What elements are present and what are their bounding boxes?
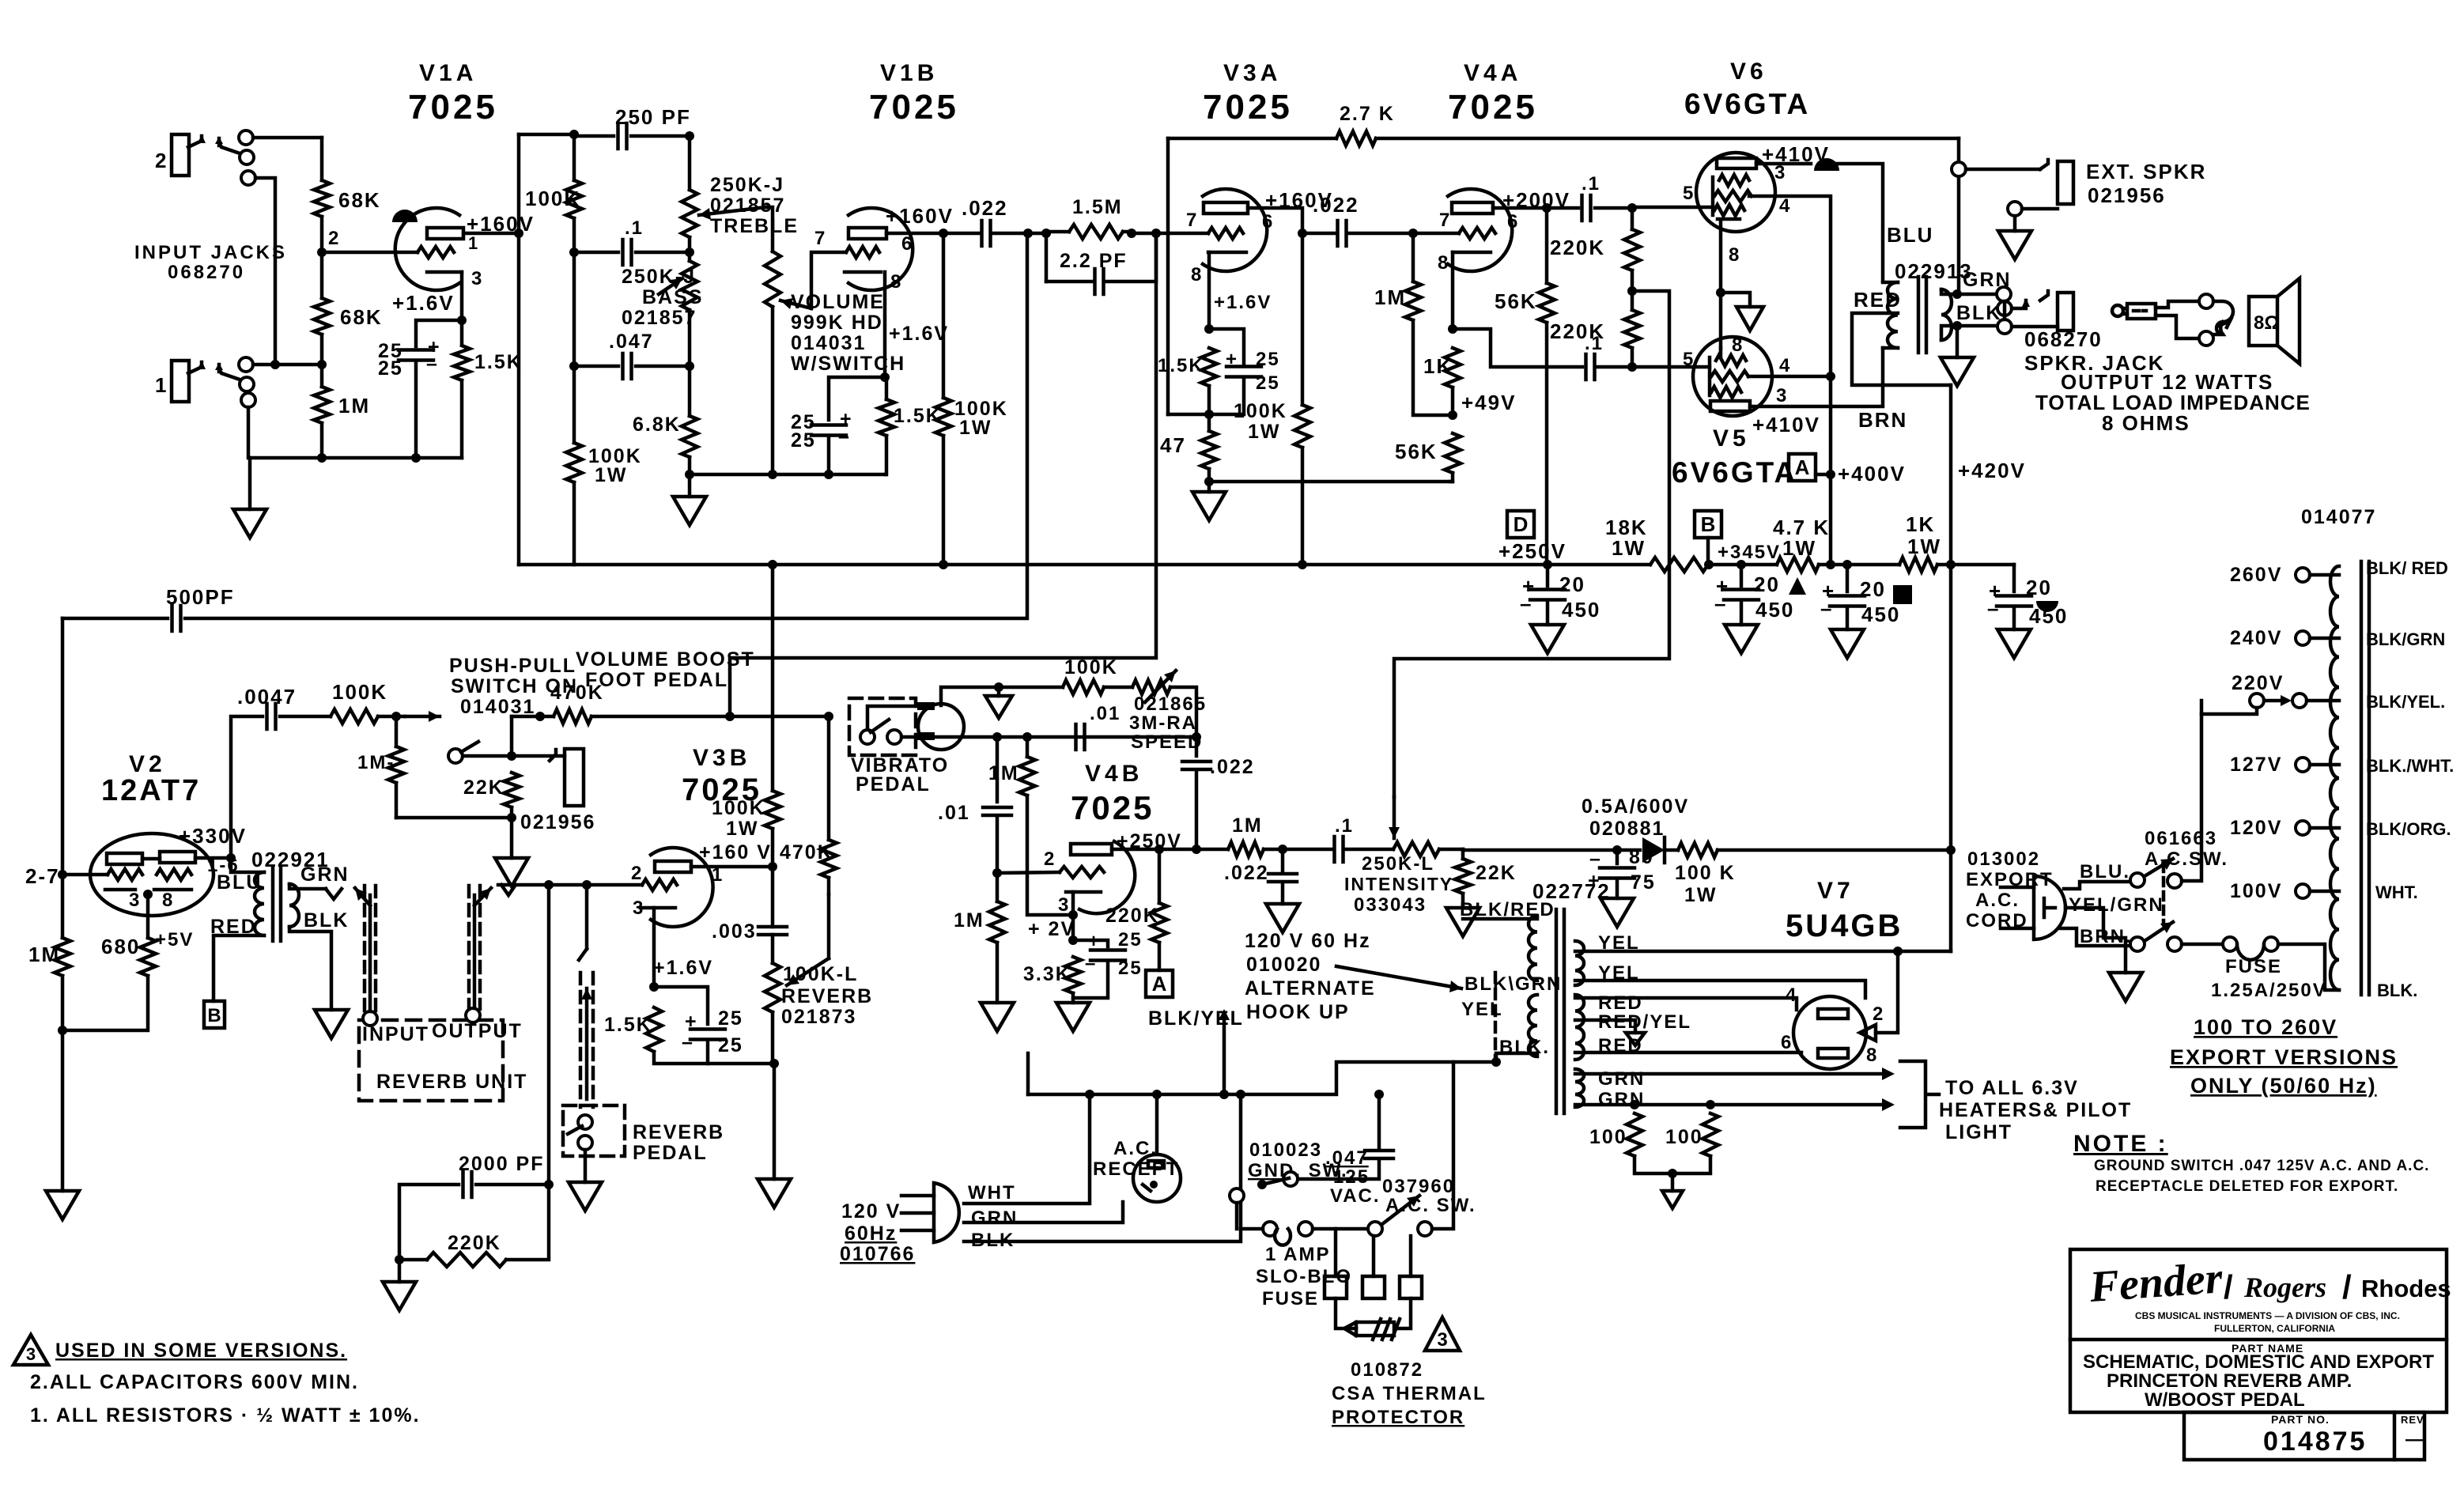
node volume gnd <box>768 470 777 479</box>
terminal 100V <box>2296 884 2310 898</box>
V6 cathode bar <box>1718 217 1740 221</box>
wire .01v bottom <box>996 816 1000 873</box>
terminal fusex right <box>2264 937 2278 951</box>
warning triangle note <box>13 1335 48 1365</box>
wire 22K vib bot <box>1461 894 1465 908</box>
wire 1M boost bot <box>395 783 399 818</box>
svg-text:–: – <box>1820 596 1833 620</box>
input jack 1 tip contact wire <box>217 365 221 372</box>
svg-text:68K: 68K <box>338 188 381 212</box>
xfmr prim bot lead <box>1883 346 1898 350</box>
V6 plate lead <box>1756 162 1811 166</box>
svg-text:220V: 220V <box>2232 672 2284 694</box>
plug prong blk <box>901 1229 934 1233</box>
svg-text:0.5A/600V: 0.5A/600V <box>1582 795 1689 818</box>
svg-text:V5: V5 <box>1713 425 1750 452</box>
svg-text:100 TO 260V: 100 TO 260V <box>2194 1015 2337 1039</box>
tube V1B envelope <box>848 208 913 290</box>
fuse drop <box>1239 1094 1243 1229</box>
warning triangle 3 <box>1425 1317 1460 1351</box>
tube V4A envelope <box>1448 189 1512 271</box>
tap 260 <box>2310 573 2339 577</box>
svg-text:+: + <box>1226 349 1238 370</box>
box node B red <box>204 1001 225 1028</box>
svg-text:/: / <box>2342 1268 2352 1306</box>
node V3A cath bottom <box>1204 410 1214 419</box>
bus 400 section <box>1819 563 1899 567</box>
node V3B plate <box>768 862 777 871</box>
capacitor .1 vib <box>1335 837 1343 862</box>
svg-text:OUTPUT: OUTPUT <box>432 1020 523 1042</box>
resistor 22K vib <box>1455 859 1471 894</box>
svg-text:061663: 061663 <box>2145 828 2217 849</box>
svg-text:1M: 1M <box>1374 285 1406 309</box>
resistor 1.5K V1B <box>879 399 894 436</box>
svg-text:68K: 68K <box>340 305 383 329</box>
wire 2.2pf left <box>1046 280 1094 284</box>
resistor 56K tail <box>1539 283 1555 323</box>
svg-text:100K: 100K <box>525 187 580 210</box>
heater bracket <box>1900 1061 1939 1128</box>
cable send arrow top <box>355 888 370 905</box>
svg-text:100: 100 <box>1665 1126 1703 1148</box>
resistor 470K vert <box>821 840 837 878</box>
svg-text:6V6GTA: 6V6GTA <box>1684 88 1810 120</box>
wire 6.8K top <box>688 366 692 416</box>
potentiometer treble 250K-J <box>682 190 697 237</box>
V3B grid line <box>498 883 642 887</box>
potentiometer 250K-L intensity <box>1393 842 1439 856</box>
input jack 2 ring lever <box>219 142 247 156</box>
box node B <box>1695 511 1721 538</box>
AC receptacle slot <box>1148 1161 1164 1168</box>
node V4B cath a <box>1068 910 1078 920</box>
node V4B plate b <box>1192 845 1201 854</box>
cable ret center <box>473 895 477 1008</box>
blkyel riser <box>1223 1014 1226 1094</box>
ground .022 vib <box>1266 904 1299 932</box>
svg-text:021956: 021956 <box>520 811 595 833</box>
terminal gndsw right <box>1283 1172 1298 1186</box>
wire .1 cap right <box>636 251 690 255</box>
resistor 1M out <box>1228 842 1264 856</box>
V2 grid wire <box>62 873 108 877</box>
V6 grid1 zigzag <box>1719 175 1749 186</box>
junction jack1/jack2 sleeve <box>270 360 280 369</box>
svg-text:1: 1 <box>468 233 479 253</box>
node tone gnd bus <box>685 470 694 479</box>
svg-text:7025: 7025 <box>408 88 498 127</box>
grn arrow top <box>1882 1068 1895 1080</box>
ground stem tone <box>688 474 692 497</box>
ground 22K vib <box>1446 908 1480 936</box>
node 220K bottom <box>1627 362 1637 372</box>
svg-text:V3B: V3B <box>693 745 750 771</box>
wire 470K vert bottom <box>827 878 831 894</box>
wire plate to .1a <box>1547 206 1578 210</box>
svg-text:1.5K: 1.5K <box>474 351 523 373</box>
svg-text:8: 8 <box>1191 264 1203 285</box>
node V4A grid <box>1408 229 1418 238</box>
svg-text:V4A: V4A <box>1464 60 1521 86</box>
V6 plate <box>1717 158 1756 168</box>
wire 220K A bot <box>1158 943 1162 970</box>
svg-text:Fender: Fender <box>2088 1253 2225 1312</box>
V3A plate lead <box>1248 208 1302 233</box>
cap D gnd stem <box>1546 600 1550 625</box>
export winding <box>2330 566 2339 990</box>
xfmr2 prim bot <box>214 935 264 1001</box>
svg-text:2: 2 <box>1044 848 1056 870</box>
terminal acswx bot L <box>2130 937 2145 951</box>
input jack 1 tip prong <box>188 362 202 373</box>
svg-text:100K: 100K <box>1234 400 1287 422</box>
svg-text:–: – <box>1589 848 1602 870</box>
capacitor 500PF <box>172 606 181 631</box>
svg-text:INTENSITY: INTENSITY <box>1344 874 1453 894</box>
terminal acsw right <box>1418 1222 1432 1236</box>
svg-text:W/BOOST PEDAL: W/BOOST PEDAL <box>2145 1389 2305 1411</box>
V6 grid ladder <box>1711 177 1715 215</box>
node .022 vib tap <box>1278 845 1287 854</box>
svg-text:6.8K: 6.8K <box>633 414 681 436</box>
svg-text:120 V: 120 V <box>841 1200 901 1222</box>
ground yelgrn <box>2109 973 2142 1001</box>
tube V7 envelope <box>1793 996 1866 1069</box>
V1A plate <box>427 228 463 239</box>
node input gnd <box>317 453 327 463</box>
wire V3B cath bot <box>654 1052 774 1064</box>
wire 100K1W right col seg2 <box>942 436 946 565</box>
svg-text:BLK./WHT.: BLK./WHT. <box>2366 756 2454 776</box>
svg-text:YEL/GRN: YEL/GRN <box>2069 894 2164 916</box>
cap moon gnd stem <box>2012 607 2016 629</box>
wire NFB riser <box>1166 138 1170 414</box>
node +420V bus <box>1946 560 1956 569</box>
svg-text:014031: 014031 <box>791 332 866 354</box>
svg-text:REVERB UNIT: REVERB UNIT <box>376 1071 527 1093</box>
terminal fusex left <box>2223 937 2237 951</box>
wire 420 to yel <box>1898 950 1951 954</box>
svg-text:BLU: BLU <box>217 871 262 894</box>
svg-text:1M: 1M <box>28 943 60 966</box>
svg-text:VOLUME: VOLUME <box>791 291 885 313</box>
V5 grid ladder <box>1708 357 1712 395</box>
capacitor 20/450 moon <box>1997 596 2031 607</box>
svg-text:B: B <box>207 1005 221 1026</box>
wire 56K tail col seg1 <box>1545 208 1549 283</box>
node +400V bus <box>1826 560 1835 569</box>
ground 100 <box>1662 1191 1683 1208</box>
ext spkr jack body <box>2058 161 2073 204</box>
wire 80/75 gnd stem <box>1616 879 1619 898</box>
resistor 1.5K V3A <box>1201 348 1217 386</box>
terminal 220V b <box>2292 693 2307 708</box>
wire 1M V4A bot <box>1413 320 1450 415</box>
wire 56K tail col seg2 <box>1545 323 1549 564</box>
wire spkr jack link <box>2003 301 2007 319</box>
symbol half-moon V1A <box>392 210 418 222</box>
input jack 1 tip arrow <box>198 361 206 369</box>
ground ext spkr <box>1998 231 2031 259</box>
wire 1M osc top <box>1026 737 1030 757</box>
terminal spkr grn <box>1997 287 2011 301</box>
svg-text:Rogers: Rogers <box>2243 1272 2326 1303</box>
grn top lead <box>1575 1072 1882 1076</box>
pt red winding <box>1575 995 1584 1060</box>
V1B cathode lead <box>883 272 887 377</box>
svg-text:–: – <box>1085 953 1097 974</box>
resistor 1K bus <box>1899 557 1937 572</box>
terminal reverb output <box>466 1008 480 1022</box>
node osc fb <box>994 682 1003 692</box>
thermal drop 2 <box>1372 1236 1376 1276</box>
wire volume wiper to V1B grid <box>811 252 846 308</box>
wire 22K vib top <box>1461 849 1465 859</box>
ground boost <box>495 858 528 886</box>
terminal gndsw left <box>1230 1188 1244 1203</box>
svg-text:.047: .047 <box>609 331 654 353</box>
resistor 100K 1W V1B <box>935 398 951 436</box>
wire treble mid <box>688 237 692 261</box>
svg-text:+330V: +330V <box>179 824 247 848</box>
svg-text:25: 25 <box>718 1034 743 1056</box>
box node A <box>1789 454 1816 481</box>
acswx top out <box>2182 701 2201 881</box>
cap sq gnd stem <box>1846 607 1850 629</box>
resistor 220K vib <box>1151 903 1167 943</box>
V1B cathode bar <box>845 270 881 274</box>
wire V3B cath cap <box>654 987 708 1024</box>
capacitor 25/25 V1A <box>399 350 433 361</box>
resistor 1M grid <box>989 901 1005 943</box>
svg-text:1 AMP: 1 AMP <box>1265 1244 1330 1265</box>
svg-text:+1.6V: +1.6V <box>1214 292 1272 313</box>
wire speed right <box>1170 687 1196 737</box>
svg-text:PEDAL: PEDAL <box>856 773 931 795</box>
svg-text:REV: REV <box>2401 1414 2424 1426</box>
V5 screen wire <box>1748 375 1831 379</box>
svg-text:REVERB: REVERB <box>633 1121 724 1143</box>
node .047 node <box>685 361 694 371</box>
wire vibrato inject <box>1394 291 1669 797</box>
svg-text:5: 5 <box>1683 183 1695 204</box>
ground V2 <box>46 1191 79 1219</box>
svg-text:3: 3 <box>1776 385 1788 406</box>
wire spkr sleeve <box>2012 325 2058 329</box>
push-pull switch arrow <box>405 715 440 719</box>
svg-text:—: — <box>2405 1429 2426 1450</box>
node boost to 470K vert <box>824 712 833 721</box>
terminal vib pedal L <box>860 730 875 744</box>
thermal sq 2 <box>1362 1276 1385 1298</box>
terminal acswx top L <box>2130 873 2145 887</box>
svg-text:250K-J: 250K-J <box>622 266 696 288</box>
wire jack2 sleeve down <box>255 178 275 365</box>
resistor 100K 1W slope <box>566 443 582 482</box>
svg-text:470K: 470K <box>780 841 833 863</box>
cable hot <box>2156 301 2199 308</box>
node recept bus <box>1152 1090 1162 1099</box>
wire cathode to bypass cap <box>416 320 462 346</box>
wire .047 left <box>574 365 618 368</box>
V4B cathode bar <box>1066 890 1101 894</box>
wire 100K load column seg2 <box>573 218 576 443</box>
svg-text:8: 8 <box>1438 252 1449 274</box>
node V6 cathode gnd <box>1716 288 1725 297</box>
wire V4B cap bot <box>1073 961 1108 998</box>
wire 1.5M stub l <box>1046 230 1069 234</box>
V3A cathode bar <box>1208 251 1246 255</box>
resistor 220K lower <box>1624 310 1640 348</box>
resistor 100K V1A load <box>566 180 582 218</box>
node V3A grid b <box>1151 229 1161 238</box>
svg-text:5: 5 <box>1683 349 1695 370</box>
svg-text:3: 3 <box>129 890 141 911</box>
svg-text:240V: 240V <box>2230 627 2282 649</box>
terminal fuse right <box>1298 1222 1313 1236</box>
xfmr prim top lead <box>1883 281 1898 285</box>
svg-text:HOOK UP: HOOK UP <box>1246 1001 1350 1023</box>
V2 cathode bar left <box>105 888 135 892</box>
svg-text:120 V 60 Hᴢ: 120 V 60 Hᴢ <box>1245 930 1371 952</box>
input jack 1 ring lever <box>219 368 247 382</box>
V5 plate lead <box>1750 348 1883 406</box>
svg-text:2.7 K: 2.7 K <box>1340 103 1395 125</box>
svg-text:ALTERNATE: ALTERNATE <box>1245 977 1376 1000</box>
cap .047 bot <box>1297 1159 1379 1179</box>
svg-text:LIGHT: LIGHT <box>1945 1121 2012 1143</box>
svg-text:500PF: 500PF <box>166 585 235 609</box>
V5 grid8 lead <box>1719 348 1723 357</box>
node 100 a <box>1630 1100 1639 1109</box>
svg-text:V4B: V4B <box>1085 761 1143 787</box>
wire .022 V3A to grid <box>1347 232 1459 236</box>
pedal lever <box>568 1126 582 1134</box>
reverb pot wiper <box>787 958 829 985</box>
pt primary lower <box>1529 995 1537 1056</box>
V5 grid2 zigzag <box>1711 371 1748 382</box>
svg-text:25: 25 <box>1256 372 1280 394</box>
svg-text:A.C.: A.C. <box>1113 1138 1158 1159</box>
blu wire <box>2064 882 2130 889</box>
svg-text:BLK/YEL.: BLK/YEL. <box>2366 692 2445 712</box>
acswx top lever <box>2145 859 2173 876</box>
wire 500pf right <box>185 233 1027 618</box>
svg-text:FUSE: FUSE <box>1262 1288 1319 1309</box>
svg-text:+250V: +250V <box>1498 539 1566 563</box>
V6 cathode lead <box>1719 222 1723 348</box>
thermal sq 1 <box>1325 1276 1347 1298</box>
wire to .022 coupler <box>943 232 981 236</box>
capacitor 2000PF <box>463 1172 472 1197</box>
svg-text:1W: 1W <box>1612 536 1646 560</box>
ground V6 cathode <box>1737 307 1763 331</box>
svg-text:450: 450 <box>1755 598 1794 622</box>
ground 1M grid <box>981 1003 1014 1031</box>
svg-text:BLU: BLU <box>1887 223 1933 247</box>
svg-text:1M: 1M <box>988 762 1019 784</box>
node 100K top <box>569 130 579 139</box>
svg-text:100K-L: 100K-L <box>783 963 858 985</box>
grn wire <box>964 1202 1123 1222</box>
svg-text:068270: 068270 <box>2024 327 2103 351</box>
wire top feed to 250pf <box>519 133 574 137</box>
V5 grid3 zigzag <box>1711 387 1741 398</box>
svg-text:BLK\GRN: BLK\GRN <box>1464 973 1562 995</box>
resistor 18K <box>1650 557 1708 572</box>
input jack 2 body <box>172 134 189 176</box>
svg-text:BLK: BLK <box>1956 302 2001 324</box>
box node A vib <box>1146 970 1173 997</box>
capacitor 25/25 V4B <box>1090 950 1125 961</box>
wire jack1 sleeve to ground bus <box>247 407 251 458</box>
diode 020881 <box>1642 837 1665 863</box>
svg-text:NOTE :: NOTE : <box>2073 1131 2168 1157</box>
V6 grid1 wire <box>1632 206 1713 210</box>
svg-text:2-7: 2-7 <box>25 864 60 888</box>
svg-text:.1: .1 <box>1585 333 1604 354</box>
input jack 1 ring terminal <box>240 377 254 391</box>
svg-text:1K: 1K <box>1423 354 1453 378</box>
svg-text:3: 3 <box>26 1344 36 1364</box>
wire 3.3K bot <box>1071 993 1075 1003</box>
V1A plate lead <box>463 232 519 236</box>
red bot lead <box>1575 1051 1801 1055</box>
resistor 1.5M <box>1069 225 1123 239</box>
symbol half moon marker <box>2036 601 2058 612</box>
wire 220K stub <box>399 1258 427 1262</box>
wire pot bottom <box>771 1012 775 1064</box>
input jack 2 sleeve terminal <box>241 171 255 185</box>
svg-text:PROTECTOR: PROTECTOR <box>1332 1407 1464 1428</box>
wire .1a to 220K <box>1595 206 1632 210</box>
ground 80/75 <box>1600 898 1634 927</box>
export core 1 <box>2360 561 2364 995</box>
wire V3A cap bot <box>1168 377 1244 414</box>
svg-text:PUSH-PULL: PUSH-PULL <box>449 655 576 677</box>
svg-text:.022: .022 <box>962 196 1008 220</box>
dashed blkgrn <box>1494 973 1498 1060</box>
wire 1M osc bottom <box>1027 795 1073 915</box>
ground osc fb <box>985 696 1012 718</box>
terminal 220V a <box>2250 693 2264 708</box>
resistor 100 a <box>1627 1113 1642 1156</box>
capacitor 20/450 B <box>1724 590 1759 600</box>
svg-text:RED: RED <box>1854 288 1902 312</box>
V5 plate <box>1710 401 1750 411</box>
svg-text:8 OHMS: 8 OHMS <box>2102 411 2190 435</box>
svg-text:127V: 127V <box>2230 754 2282 776</box>
cap B gnd stem <box>1740 600 1744 625</box>
node pedal sw <box>507 751 516 761</box>
cap .047 stem <box>1377 1094 1381 1148</box>
treble wiper arrow <box>699 207 765 215</box>
svg-text:Rhodes: Rhodes <box>2361 1275 2451 1302</box>
resistor 1M input <box>314 387 330 423</box>
svg-text:USED IN SOME VERSIONS.: USED IN SOME VERSIONS. <box>55 1340 347 1362</box>
svg-text:B: B <box>1701 512 1716 536</box>
terminal fuse left <box>1263 1222 1277 1236</box>
node A tap <box>1826 470 1835 479</box>
svg-text:.022: .022 <box>1224 862 1269 884</box>
red top lead <box>1575 998 1797 1010</box>
svg-text:1W: 1W <box>726 818 759 840</box>
svg-text:V1A: V1A <box>419 60 477 86</box>
pt blk lead <box>1496 1053 1537 1062</box>
wht wire <box>964 1094 1090 1204</box>
V1A cathode lead <box>460 272 464 344</box>
